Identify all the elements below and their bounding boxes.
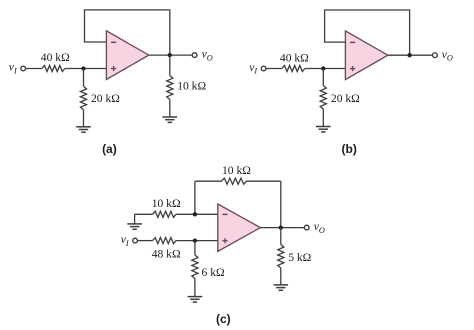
junction node at output (c) — [279, 225, 283, 229]
junction node at plus input (b) — [321, 66, 325, 70]
op-amp (a) — [106, 31, 148, 80]
wire R 40k to op-amp plus input (a) — [65, 68, 107, 70]
resistor 20 k ohm (b) — [320, 86, 326, 110]
ground (a) bottom — [76, 127, 91, 132]
wire feedback loop (b): minus input to output — [325, 10, 410, 55]
node vO (c): output terminal — [304, 225, 309, 230]
resistor 6 k ohm (c) — [192, 255, 198, 279]
resistor 40 k ohm (b) — [282, 65, 305, 71]
caption (a) — [102, 142, 117, 156]
svg-text:(a): (a) — [102, 142, 117, 156]
wire left ground to R 10k (c) — [135, 213, 153, 215]
wire output node down to R 5k (c) — [280, 228, 282, 245]
node vI (a): input terminal — [21, 66, 26, 71]
value label 10 kOhm (a) — [177, 80, 206, 93]
node vO (a): output terminal — [192, 53, 197, 58]
wire R 20k to ground (b) — [322, 109, 324, 127]
value label 40 kOhm (a) — [41, 51, 70, 64]
wire node down to R 20k (a) — [83, 69, 85, 87]
resistor 40 k ohm (a) — [42, 65, 65, 71]
label vO (a) — [202, 48, 213, 63]
wire R 6k to ground (c) — [194, 279, 196, 297]
ground (a) under load — [163, 117, 178, 122]
resistor 48 k ohm (c) — [153, 238, 177, 244]
value label 48 kOhm (c) — [152, 248, 181, 261]
wire R 10k to ground (a) — [169, 100, 171, 118]
junction node at minus input (c) — [193, 212, 197, 216]
op-amp (b) inverting pin minus sign — [350, 41, 355, 43]
circuit (a) — [9, 10, 213, 156]
wire op-amp output to vO terminal (a) — [149, 54, 193, 56]
wire feedback top right segment (c) — [247, 180, 281, 182]
resistor 20 k ohm (a) — [80, 86, 86, 110]
op-amp (a) inverting pin minus sign — [111, 41, 116, 43]
op-amp (c) inverting pin minus sign — [222, 213, 227, 215]
svg-text:10 kΩ: 10 kΩ — [222, 164, 251, 177]
label vO (b) — [442, 48, 453, 63]
op-amp (b) non-inverting pin plus sign — [350, 66, 355, 71]
node vO (b): output terminal — [433, 53, 438, 58]
wire feedback top left segment (c) — [195, 180, 222, 182]
svg-text:5 kΩ: 5 kΩ — [288, 251, 311, 264]
wire node down to R 6k (c) — [194, 241, 196, 255]
circuit (c) — [121, 164, 325, 326]
svg-text:40 kΩ: 40 kΩ — [41, 51, 70, 64]
value label 5 kOhm (c) — [288, 251, 311, 264]
value label 10 kOhm feedback (c) — [222, 164, 251, 177]
wire vI to R 48k (c) — [137, 240, 152, 242]
wire vI to R 40k (b) — [266, 68, 282, 70]
wire R 48k to op-amp plus input (c) — [176, 240, 218, 242]
ground (c) under 6k — [188, 297, 203, 302]
wire vI to R 40k (a) — [25, 68, 42, 70]
resistor 10 k ohm feedback (c) — [222, 178, 247, 184]
ground (c) under 5k — [274, 285, 289, 290]
wire feedback right vertical down to output (c) — [280, 181, 282, 227]
svg-text:20 kΩ: 20 kΩ — [331, 92, 360, 105]
wire op-amp output to vO terminal (c) — [260, 227, 304, 229]
caption (c) — [216, 312, 231, 326]
ground (b) — [316, 127, 331, 132]
resistor 5 k ohm load (c) — [278, 245, 284, 269]
op-amp (c) — [218, 204, 261, 251]
node vI (c): input terminal — [133, 238, 138, 243]
label vI (b) — [249, 61, 258, 76]
label vI (c) — [121, 233, 130, 248]
circuit (b) — [249, 10, 453, 156]
resistor 10 k ohm input (c) — [153, 211, 177, 217]
junction node at plus input (c) — [193, 238, 197, 242]
junction node at plus input (a) — [81, 66, 85, 70]
svg-text:6 kΩ: 6 kΩ — [202, 266, 225, 279]
svg-text:48 kΩ: 48 kΩ — [152, 248, 181, 261]
wire output node down to R 10k (a) — [169, 55, 171, 75]
node vI (b): input terminal — [261, 66, 266, 71]
op-amp (c) non-inverting pin plus sign — [222, 238, 227, 243]
svg-text:20 kΩ: 20 kΩ — [91, 92, 120, 105]
label vO (c) — [314, 220, 325, 235]
value label 10 kOhm input (c) — [152, 197, 181, 210]
wire R 5k to ground (c) — [280, 268, 282, 285]
junction node at output (a) — [168, 53, 172, 57]
wire feedback left vertical (c): minus node up — [194, 181, 196, 214]
wire feedback loop (a): minus input to output — [85, 10, 170, 55]
value label 40 kOhm (b) — [280, 51, 309, 64]
wire node down to R 20k (b) — [322, 69, 324, 86]
label vI (a) — [9, 61, 18, 76]
value label 6 kOhm (c) — [202, 266, 225, 279]
wire R 40k to op-amp plus input (b) — [305, 68, 346, 70]
op-amp (a) non-inverting pin plus sign — [111, 66, 116, 71]
svg-text:10 kΩ: 10 kΩ — [177, 80, 206, 93]
svg-text:(c): (c) — [216, 312, 231, 326]
resistor 10 k ohm load (a) — [167, 76, 173, 100]
wire R 20k to ground (a) — [83, 110, 85, 127]
junction node at output (b) — [407, 53, 411, 57]
value label 20 kOhm (a) — [91, 92, 120, 105]
ground (c) left — [134, 214, 136, 224]
svg-text:40 kΩ: 40 kΩ — [280, 51, 309, 64]
wire R 10k to op-amp minus input (c) — [176, 213, 218, 215]
value label 20 kOhm (b) — [331, 92, 360, 105]
svg-text:10 kΩ: 10 kΩ — [152, 197, 181, 210]
wire op-amp output to vO terminal (b) — [388, 54, 433, 56]
caption (b) — [342, 142, 357, 156]
svg-text:(b): (b) — [342, 142, 357, 156]
op-amp (b) — [345, 31, 387, 80]
